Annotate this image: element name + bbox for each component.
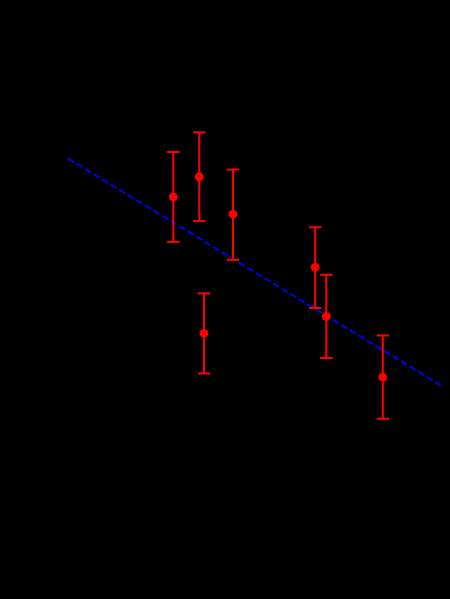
marker point 6 (200, 329, 209, 338)
error bar point 3 (227, 170, 239, 260)
error bar point 6 (198, 293, 210, 373)
marker point 3 (229, 210, 238, 219)
marker point 2 (195, 172, 204, 181)
marker point 4 (311, 263, 320, 272)
fit line (blue dashed) (68, 159, 441, 386)
error bar point 5 (320, 275, 332, 358)
error bar point 7 (377, 336, 389, 419)
error bar point 2 (193, 132, 205, 221)
marker point 7 (378, 373, 387, 382)
error bar point 1 (167, 152, 179, 242)
marker point 5 (322, 312, 331, 321)
error bar point 4 (309, 227, 321, 308)
marker point 1 (169, 193, 178, 202)
